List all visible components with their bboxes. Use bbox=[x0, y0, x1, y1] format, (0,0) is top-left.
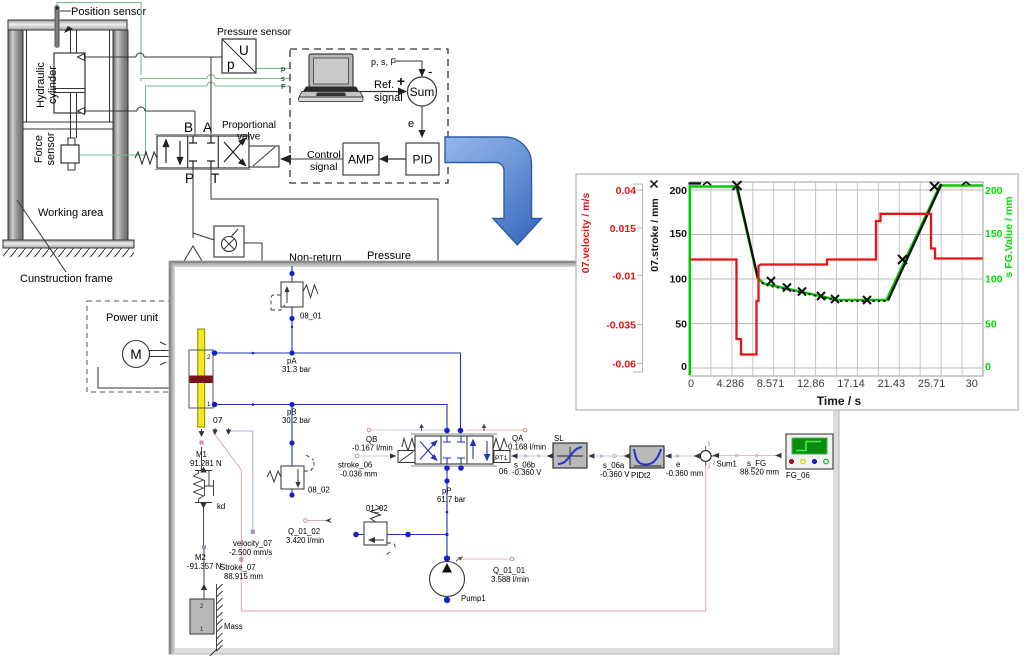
frame mid crossbar bbox=[23, 122, 113, 129]
signal wire FG to Sum1 bbox=[713, 453, 782, 458]
svg-text:signal: signal bbox=[374, 92, 403, 104]
label FG_06 bbox=[786, 471, 810, 480]
svg-text:200: 200 bbox=[669, 185, 687, 197]
svg-text:Pump1: Pump1 bbox=[461, 594, 486, 603]
label pA pressure bbox=[282, 357, 311, 375]
svg-text:PIDt2: PIDt2 bbox=[631, 471, 651, 480]
force sensor bbox=[61, 138, 79, 170]
pP line valve to pump bbox=[444, 468, 449, 558]
label 07.velocity axis bbox=[580, 193, 592, 274]
pressure sensor U/p bbox=[222, 39, 256, 73]
svg-text:50: 50 bbox=[985, 318, 997, 330]
svg-text:sensor: sensor bbox=[45, 132, 57, 165]
frame base plate bbox=[3, 240, 134, 248]
valve solenoid bbox=[249, 146, 279, 167]
svg-text:150: 150 bbox=[985, 228, 1003, 240]
svg-text:A: A bbox=[203, 120, 212, 135]
valve cell3 crossed arrows bbox=[224, 139, 246, 166]
label kd bbox=[217, 502, 225, 511]
label Working area bbox=[38, 207, 104, 219]
svg-text:3: 3 bbox=[708, 465, 711, 471]
position sensor rod bbox=[55, 5, 60, 48]
plot horizontal gridlines bbox=[690, 190, 983, 368]
svg-text:Time / s: Time / s bbox=[817, 394, 862, 408]
svg-text:Sum1: Sum1 bbox=[717, 460, 737, 469]
construction frame left column bbox=[8, 30, 23, 240]
svg-text:0.168 l/min: 0.168 l/min bbox=[508, 443, 546, 452]
svg-text:Working area: Working area bbox=[38, 207, 104, 219]
svg-text:AMP: AMP bbox=[348, 153, 374, 167]
svg-text:Cunstruction frame: Cunstruction frame bbox=[20, 273, 113, 285]
relief valve 08_02 bbox=[267, 405, 314, 498]
valve 06 port dots bbox=[444, 428, 464, 471]
label Q_01_02 bbox=[286, 527, 324, 545]
valve cell1 parallel arrows bbox=[163, 140, 182, 164]
svg-text:-0.360 V: -0.360 V bbox=[600, 470, 630, 479]
green wire pressure sensor p-line bbox=[256, 68, 290, 70]
svg-text:p: p bbox=[281, 64, 285, 73]
label s FG.Value axis bbox=[1003, 196, 1015, 277]
valve 06 springs bbox=[402, 439, 507, 452]
svg-text:30: 30 bbox=[966, 378, 978, 390]
label PIDt2 bbox=[631, 471, 651, 480]
control signal wire with arrow into solenoid bbox=[280, 155, 343, 164]
svg-text:0: 0 bbox=[681, 361, 687, 373]
label QA flow bbox=[508, 434, 546, 452]
frame inner guide lines bbox=[27, 30, 110, 122]
feedback wire into Sum with minus bbox=[394, 61, 433, 79]
cylinder 07 body bbox=[189, 350, 213, 408]
flow meter Q_01_02 bbox=[304, 518, 332, 523]
label Stroke_07 value bbox=[220, 563, 263, 581]
construction frame top beam bbox=[8, 20, 127, 30]
svg-text:12.86: 12.86 bbox=[797, 378, 825, 390]
velocity red curve bbox=[690, 214, 983, 355]
svg-text:B: B bbox=[184, 120, 193, 135]
filter triangle symbol bbox=[184, 246, 202, 261]
bypass line to valve 01_02 bbox=[353, 532, 447, 538]
svg-text:e: e bbox=[676, 460, 680, 469]
cylinder 07 force port square bbox=[200, 441, 203, 444]
electric motor M bbox=[123, 341, 173, 368]
wall with hatching bbox=[210, 584, 223, 656]
svg-text:200: 200 bbox=[985, 185, 1003, 197]
M2 port square bbox=[202, 546, 205, 549]
valve cell2 blocked ports bbox=[189, 136, 215, 168]
window frame bbox=[169, 261, 839, 654]
svg-text:Mass: Mass bbox=[224, 622, 243, 631]
svg-text:3.588 l/min: 3.588 l/min bbox=[491, 575, 529, 584]
svg-text:U: U bbox=[239, 43, 249, 58]
svg-text:21.43: 21.43 bbox=[878, 378, 906, 390]
label 06 bbox=[499, 467, 508, 476]
svg-text:Force: Force bbox=[33, 135, 45, 163]
plot area frame bbox=[690, 182, 983, 376]
svg-text:stroke_06: stroke_06 bbox=[338, 461, 372, 470]
label pB pressure bbox=[282, 408, 311, 426]
svg-text:SL: SL bbox=[554, 434, 564, 443]
power unit dashed box bbox=[87, 301, 172, 392]
svg-text:30.2 bar: 30.2 bar bbox=[282, 416, 311, 425]
svg-text:07.stroke / mm: 07.stroke / mm bbox=[649, 198, 661, 272]
svg-text:-0.035: -0.035 bbox=[606, 320, 636, 332]
svg-text:s FG.Value / mm: s FG.Value / mm bbox=[1003, 196, 1015, 277]
svg-text:Position sensor: Position sensor bbox=[71, 6, 147, 18]
labels p s F bbox=[281, 64, 286, 91]
label Q_01_01 bbox=[491, 566, 529, 584]
svg-text:Stroke_07: Stroke_07 bbox=[220, 563, 256, 572]
svg-text:cylinder: cylinder bbox=[47, 66, 59, 104]
pressure gauge bbox=[214, 226, 262, 261]
svg-text:-0.360 mm: -0.360 mm bbox=[666, 469, 703, 478]
svg-text:Power unit: Power unit bbox=[106, 312, 158, 324]
pipe B: cylinder bottom port to valve B bbox=[85, 107, 196, 136]
PID controller box bbox=[406, 143, 439, 175]
label Pressure sensor bbox=[217, 27, 292, 38]
svg-text:velocity_07: velocity_07 bbox=[233, 539, 272, 548]
label velocity_07 value bbox=[229, 539, 272, 557]
svg-text:Sum: Sum bbox=[410, 85, 435, 99]
label 08_01 bbox=[300, 312, 322, 321]
stroke sensor port square bbox=[240, 558, 243, 561]
svg-text:06: 06 bbox=[499, 467, 508, 476]
pump Pump1 bbox=[430, 555, 465, 603]
directional valve 06 body bbox=[411, 434, 497, 466]
label Position sensor bbox=[60, 6, 147, 18]
cylinder port triangles bbox=[78, 54, 85, 115]
chart background panel bbox=[576, 174, 1018, 410]
function generator FG_06 bbox=[786, 434, 833, 469]
transfer block SL bbox=[553, 443, 587, 468]
pA line bbox=[212, 350, 461, 430]
svg-text:01_02: 01_02 bbox=[366, 504, 388, 513]
summation node Sum1 bbox=[700, 442, 716, 471]
ref signal arrow laptop to Sum bbox=[357, 74, 407, 104]
svg-text:08_02: 08_02 bbox=[308, 486, 330, 495]
label s_FG value bbox=[740, 459, 779, 477]
label SL bbox=[554, 434, 564, 443]
svg-text:-: - bbox=[428, 64, 433, 79]
svg-text:FG_06: FG_06 bbox=[786, 471, 810, 480]
svg-text:Q_01_01: Q_01_01 bbox=[493, 566, 525, 575]
arrow PID to AMP bbox=[379, 155, 406, 163]
pipe T to pressure relief (behind window) bbox=[211, 168, 438, 261]
svg-text:PID: PID bbox=[412, 153, 432, 167]
dashed control system box bbox=[290, 49, 448, 183]
velocity tick labels bbox=[606, 185, 636, 371]
pipe P down to filter bbox=[193, 168, 214, 240]
svg-text:2: 2 bbox=[713, 461, 716, 467]
base plate hatching bbox=[3, 248, 134, 257]
cylinder 07 yellow piston rod bbox=[198, 329, 205, 427]
green wire force sensor to F-line bbox=[79, 82, 290, 155]
spring-damper kd bbox=[194, 447, 214, 545]
svg-text:PT1: PT1 bbox=[495, 455, 508, 462]
summation node Sum bbox=[408, 77, 437, 106]
label 07 bbox=[213, 415, 223, 425]
label s_06b value bbox=[512, 461, 542, 477]
svg-text:07: 07 bbox=[213, 415, 223, 425]
svg-text:Control: Control bbox=[307, 149, 341, 161]
label QB flow bbox=[352, 435, 393, 453]
velocity measurement wire bbox=[229, 431, 253, 530]
label Non-return bbox=[289, 252, 342, 264]
svg-text:e: e bbox=[408, 118, 414, 130]
flow meter Q_01_01 bbox=[456, 557, 514, 562]
label Proportional valve bbox=[222, 120, 276, 143]
svg-text:kd: kd bbox=[217, 502, 225, 511]
velocity port square bbox=[251, 530, 255, 534]
svg-text:25.71: 25.71 bbox=[918, 378, 946, 390]
label 08_02 bbox=[308, 486, 330, 495]
svg-text:-0.06: -0.06 bbox=[612, 359, 636, 371]
relief valve 08_01 bbox=[271, 266, 318, 353]
svg-text:88.520 mm: 88.520 mm bbox=[740, 468, 779, 477]
svg-text:50: 50 bbox=[675, 318, 687, 330]
svg-text:p: p bbox=[227, 57, 235, 72]
svg-text:p, s, F: p, s, F bbox=[371, 57, 397, 67]
svg-text:Q_01_02: Q_01_02 bbox=[288, 527, 320, 536]
label Control signal bbox=[307, 149, 341, 173]
signal wire PT1 to SL bbox=[511, 453, 553, 458]
svg-text:Pressure: Pressure bbox=[367, 250, 411, 262]
svg-text:-2.500 mm/s: -2.500 mm/s bbox=[229, 548, 272, 557]
valve 06 blocked centre bbox=[443, 436, 465, 464]
plot vertical gridlines bbox=[711, 182, 962, 376]
svg-text:+: + bbox=[397, 74, 405, 89]
piston rod lower bbox=[71, 93, 77, 139]
svg-text:31.3 bar: 31.3 bar bbox=[282, 365, 311, 374]
valve 06 parallel arrows bbox=[471, 440, 490, 460]
svg-text:100: 100 bbox=[669, 273, 687, 285]
stroke cross markers bbox=[733, 181, 940, 304]
stroke black curve dotted segments bbox=[758, 279, 888, 302]
signal wire SL to PIDt2 bbox=[587, 453, 630, 458]
svg-text:0.015: 0.015 bbox=[610, 223, 636, 235]
svg-text:F: F bbox=[281, 82, 286, 91]
flow control valve 01_02 bbox=[364, 505, 395, 556]
svg-text:08_01: 08_01 bbox=[300, 312, 322, 321]
svg-text:Hydraulic: Hydraulic bbox=[35, 62, 47, 108]
legend cross marker bbox=[651, 181, 658, 188]
valve 06 PT1 box bbox=[494, 451, 510, 463]
label 01_02 bbox=[366, 504, 388, 513]
svg-text:M: M bbox=[130, 347, 141, 362]
FG value green curve bbox=[690, 186, 983, 376]
svg-text:100: 100 bbox=[985, 273, 1003, 285]
laptop computer bbox=[299, 54, 364, 102]
error signal e to PID bbox=[408, 106, 426, 138]
pipe A: cylinder top port to valve A and pressure sensor bbox=[85, 53, 223, 136]
svg-text:s_06a: s_06a bbox=[603, 461, 625, 470]
svg-text:T: T bbox=[211, 171, 219, 186]
mass block bbox=[190, 599, 214, 634]
valve 06 crossed arrows bbox=[420, 441, 437, 460]
svg-text:-0.167 l/min: -0.167 l/min bbox=[352, 444, 393, 453]
velocity axis bracket bbox=[633, 184, 643, 372]
time tick labels bbox=[688, 378, 978, 390]
valve port labels bbox=[184, 120, 219, 186]
power unit tank line bbox=[98, 367, 172, 388]
label M1 force bbox=[190, 450, 222, 468]
cylinder 07 signal port arrows bbox=[199, 428, 230, 436]
stroke caret markers top bbox=[703, 182, 970, 185]
pink stroke feedback loop wire bbox=[213, 432, 706, 611]
svg-text:17.14: 17.14 bbox=[837, 378, 865, 390]
label p,s,F feedback bbox=[371, 57, 397, 67]
svg-text:0: 0 bbox=[688, 378, 694, 390]
svg-text:signal: signal bbox=[310, 161, 337, 173]
svg-text:valve: valve bbox=[237, 132, 261, 143]
svg-text:-0.360 V: -0.360 V bbox=[512, 468, 542, 477]
svg-text:0: 0 bbox=[985, 361, 991, 373]
svg-text:07.velocity / m/s: 07.velocity / m/s bbox=[580, 193, 592, 274]
AMP amplifier box bbox=[343, 143, 379, 175]
controller block PIDt2 bbox=[630, 446, 664, 468]
svg-text:150: 150 bbox=[669, 228, 687, 240]
svg-text:-0.01: -0.01 bbox=[612, 271, 636, 283]
stroke_06 measurement wire bbox=[355, 453, 396, 458]
construction frame right column bbox=[113, 30, 128, 240]
FG axis tick labels green bbox=[985, 185, 1003, 373]
label 07.stroke axis bbox=[649, 198, 661, 272]
hydraulic cylinder body bbox=[54, 53, 85, 113]
svg-text:3.420 l/min: 3.420 l/min bbox=[286, 536, 324, 545]
valve spring bbox=[135, 152, 157, 164]
svg-text:0.04: 0.04 bbox=[616, 185, 637, 197]
label Pressure bbox=[367, 250, 411, 262]
svg-text:-0.036 mm: -0.036 mm bbox=[340, 470, 377, 479]
pB line bbox=[212, 402, 447, 430]
signal wire PIDt2 to Sum1 bbox=[664, 453, 700, 458]
label Sum1 bbox=[717, 460, 737, 469]
piston rod upper bbox=[64, 26, 77, 53]
label Force sensor bbox=[33, 132, 57, 165]
label Mass bbox=[224, 622, 243, 631]
svg-text:1: 1 bbox=[708, 442, 711, 448]
svg-text:Proportional: Proportional bbox=[222, 120, 276, 131]
svg-text:Ref.: Ref. bbox=[374, 79, 394, 91]
svg-text:Pressure sensor: Pressure sensor bbox=[217, 27, 292, 38]
svg-text:88.915 mm: 88.915 mm bbox=[224, 572, 263, 581]
QB measurement wire bbox=[367, 424, 444, 432]
proportional valve body bbox=[155, 135, 251, 170]
label M2 force bbox=[187, 553, 221, 571]
label stroke_06 bbox=[338, 461, 377, 479]
rod to mass bbox=[202, 549, 207, 599]
green wire position sensor to s-line bbox=[57, 3, 290, 82]
svg-text:4.286: 4.286 bbox=[717, 378, 745, 390]
svg-text:61.7 bar: 61.7 bar bbox=[437, 495, 466, 504]
stroke tick labels bbox=[669, 185, 687, 373]
stroke black curve solid segments bbox=[689, 184, 942, 301]
label e value bbox=[666, 460, 703, 478]
valve 06 left solenoid bbox=[398, 451, 415, 463]
label Cunstruction frame bbox=[17, 200, 113, 285]
QA measurement wire bbox=[466, 424, 527, 432]
label Hydraulic cylinder bbox=[35, 62, 59, 108]
svg-text:8.571: 8.571 bbox=[757, 378, 785, 390]
label Time axis bbox=[817, 394, 862, 408]
label Pump1 bbox=[461, 594, 486, 603]
svg-text:91.281 N: 91.281 N bbox=[190, 459, 222, 468]
label s_06a value bbox=[600, 461, 630, 479]
label pP pressure bbox=[437, 487, 466, 505]
